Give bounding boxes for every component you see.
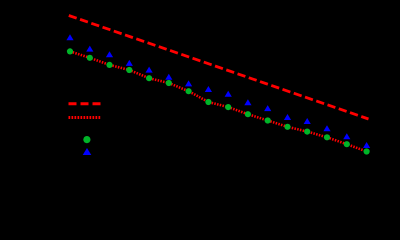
circle point 4 [126,67,132,73]
circle point 7 [186,88,192,94]
triangle point 7 [185,80,192,86]
legend dotted line sample [69,116,102,119]
triangle point 16 [363,142,370,148]
circle point 3 [106,62,112,68]
circle point 15 [344,141,350,147]
triangle point 15 [343,133,350,139]
green circle markers [67,48,370,154]
triangle point 1 [66,34,73,40]
legend circle marker sample [83,136,90,143]
circle point 5 [146,75,152,81]
circle point 6 [166,80,172,86]
triangle point 9 [225,91,232,97]
legend dashed line sample [69,102,101,105]
circle point 13 [304,129,310,135]
triangle point 8 [205,86,212,92]
circle point 12 [284,124,290,130]
circle point 10 [245,111,251,117]
blue triangle markers [66,34,370,148]
triangle point 2 [86,46,93,52]
circle point 11 [265,117,271,123]
triangle point 12 [284,114,291,120]
circle point 2 [87,55,93,61]
triangle point 3 [106,51,113,57]
circle point 14 [324,134,330,140]
triangle point 6 [165,74,172,80]
triangle point 4 [126,60,133,66]
triangle point 10 [244,99,251,105]
triangle point 13 [304,118,311,124]
circle point 8 [205,99,211,105]
circle point 1 [67,48,73,54]
legend triangle marker sample [83,148,92,155]
circle point 9 [225,104,231,110]
triangle point 14 [323,125,330,131]
dotted red line through circle data [70,51,367,151]
reference dashed line (top, red) [69,16,369,120]
triangle point 5 [146,67,153,73]
triangle point 11 [264,105,271,111]
circle point 16 [364,148,370,154]
